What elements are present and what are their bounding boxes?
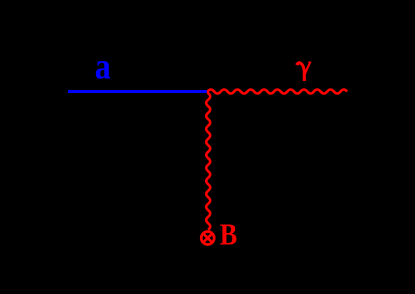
wire: axion line a (blue solid) bbox=[68, 90, 208, 93]
wire: photon line gamma (red wavy, horizontal) bbox=[208, 90, 348, 94]
label gamma (photon) bbox=[297, 62, 311, 81]
external field vertex: circled-times symbol bbox=[201, 232, 214, 245]
svg-text:a: a bbox=[95, 47, 111, 88]
svg-text:B: B bbox=[220, 217, 238, 252]
wire: virtual photon to external field (red wavy, vertical) bbox=[206, 92, 210, 230]
